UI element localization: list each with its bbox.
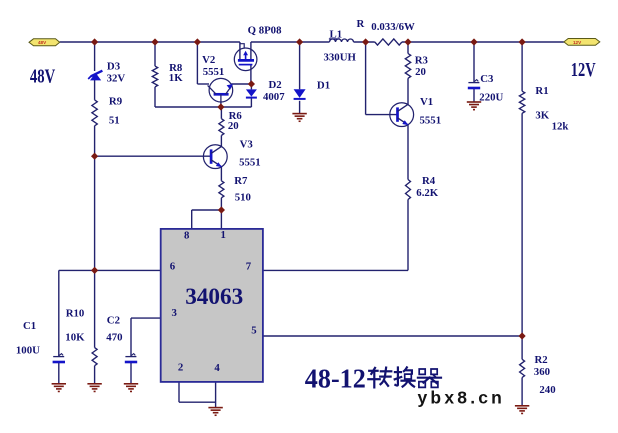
wire top rail segment L1 to R [354,41,375,43]
wire down to C2 plus plate [130,318,132,356]
svg-text:D3: D3 [107,61,121,73]
wire V2 emitter to node D [232,83,252,85]
node rail-V1 base branch [362,38,369,45]
wire node F left toward pin 8 [192,209,222,211]
ground under C3 [467,102,481,110]
wire R9 to node B and on down to node C [94,126,96,271]
svg-text:20: 20 [415,66,426,78]
svg-text:D1: D1 [317,79,330,91]
capacitor C1 [53,354,65,362]
svg-text:51: 51 [109,114,120,126]
node D MOSFET/V2 emitter/D2 [248,80,255,87]
zener diode D3 [88,71,102,81]
wire node D to D2 anode [250,84,252,89]
svg-text:R1: R1 [535,85,548,97]
resistor R6 [219,119,224,136]
svg-text:R4: R4 [422,175,436,187]
resistor R2 [520,359,525,377]
svg-text:10K: 10K [65,331,85,343]
wire lower horizontal run R8/V2 base/D2 [155,106,251,108]
wire IC pin 7 run [263,269,408,271]
ground under IC pins 2/4 [208,408,222,416]
resistor R7 [219,181,224,198]
wire R6 to V3 collector [220,135,222,147]
wire IC pin 2 down [178,382,180,402]
wire R3 to V1 collector [407,78,409,105]
node rail-R8 branch [151,38,158,45]
wire rail to R8 [154,42,156,66]
svg-text:20: 20 [228,120,239,132]
transistor V1 [390,103,414,127]
wire IC pin 4 down to ground [215,382,217,408]
node rail-D1 branch [296,38,303,45]
wire R2 to ground [521,378,523,406]
wire R10 to ground [94,366,96,384]
resistor R8 [152,66,157,87]
svg-text:510: 510 [235,192,251,204]
resistor R1 [519,91,524,113]
svg-text:C2: C2 [107,315,120,327]
svg-text:48V: 48V [38,40,47,45]
svg-text:Q 8P08: Q 8P08 [248,25,282,37]
svg-text:R3: R3 [415,54,429,66]
svg-text:1K: 1K [169,72,183,84]
wire rail to R1 [521,42,523,91]
transistor V3 [203,145,227,169]
wire IC pin 6 run to node C [95,269,161,271]
node rail-D3 branch [91,38,98,45]
svg-text:R: R [357,18,365,30]
svg-text:360: 360 [534,366,550,378]
node B V3 base tap [91,153,98,160]
title hanzi 转换器 [368,367,441,387]
svg-text:V3: V3 [240,139,254,151]
ground under C2 [124,384,138,392]
node rail-C3 branch [470,38,477,45]
transistor V2 (PNP drive) [208,78,233,102]
wire R1 down to node G [521,113,523,336]
svg-text:8: 8 [184,229,190,241]
wire IC pin 3 run [131,317,161,319]
svg-text:ybx8.cn: ybx8.cn [418,387,506,407]
svg-text:12V: 12V [571,60,596,81]
svg-text:C3: C3 [480,73,494,85]
wire rail to D1 anode [299,42,301,89]
resistor R sense 0.033/6W [375,39,402,45]
svg-text:220U: 220U [479,92,503,104]
node C pin6/C1/R10 [91,267,98,274]
wire R8 to lower horizontal [154,87,156,107]
resistor R9 [92,100,97,126]
wire C3 to ground [473,89,475,102]
svg-text:100U: 100U [16,344,40,356]
wire V2 base down to node E [220,102,222,108]
svg-text:0.033/6W: 0.033/6W [371,21,415,33]
resistor R10 [92,348,97,366]
wire IC pin 5 run to node G [263,335,522,337]
wire top rail segment R to 12V connector [402,41,564,43]
ground under D1 [292,114,306,122]
ground under C1 [52,384,66,392]
svg-text:V2: V2 [202,54,215,66]
wire pin 2 across to pin 4 [179,401,216,403]
svg-text:330UH: 330UH [324,51,357,63]
wire R4 down to pin7 level [407,200,409,271]
svg-text:48V: 48V [30,67,55,88]
wire D3 anode to R9 [94,80,96,100]
wire node G to R2 [521,336,523,359]
wire rail to R3 [407,42,409,54]
svg-text:4: 4 [214,362,220,374]
svg-text:R9: R9 [109,96,123,108]
node rail-V2 branch [194,38,201,45]
wire rail down left of V1 [365,42,367,115]
svg-text:470: 470 [106,331,122,343]
wire MOSFET bottom lead to node D [250,65,252,84]
svg-text:12k: 12k [552,121,569,133]
svg-text:5551: 5551 [203,66,225,78]
svg-text:5551: 5551 [239,157,261,169]
svg-text:C1: C1 [23,320,36,332]
mosfet Q 8P08 [234,48,257,71]
svg-text:1: 1 [221,229,226,241]
svg-text:6.2K: 6.2K [416,187,438,199]
capacitor C3 [468,80,480,88]
wire down to IC pin 8 [191,210,193,229]
op-amp U1 34063 body [161,229,263,382]
wire C2 to ground [130,363,132,384]
diode D2 [246,89,257,97]
wire 48V rail to D3 cathode [94,42,96,71]
wire to V1 base [366,114,397,116]
wire rail down to V2 collector [196,42,198,84]
svg-text:5551: 5551 [420,114,442,126]
wire V2 collector lead [197,83,209,85]
svg-text:32V: 32V [107,72,126,84]
diode D1 [294,89,306,99]
port 48V input connector [29,39,60,46]
ground under R2 [515,406,529,414]
wire R7 to node F [220,198,222,210]
resistor R3 [405,54,410,79]
resistor R4 [406,180,411,200]
inductor L1 [330,39,354,42]
svg-text:R10: R10 [66,308,85,320]
wire V3 emitter to R7 [220,167,222,181]
node rail-R1 branch [519,38,526,45]
wire top rail segment MOSFET to L1 [251,41,330,43]
svg-text:4007: 4007 [263,91,285,103]
wire down to C1 plus plate [58,270,60,356]
label L1 underline [329,38,340,40]
svg-text:7: 7 [246,260,252,272]
svg-text:12V: 12V [573,40,582,45]
wire D1 cathode to ground [299,101,301,114]
wire node B to V3 base [95,155,211,157]
svg-text:48-12: 48-12 [305,362,366,393]
svg-text:D2: D2 [269,79,282,91]
node F R7/pin1/pin8 [218,206,225,213]
capacitor C2 [125,354,137,362]
svg-text:6: 6 [170,260,176,272]
wire MOSFET right lead from rail [250,42,252,60]
wire node E to R6 [220,107,222,119]
port 12V output connector [564,39,600,46]
svg-text:2: 2 [178,361,183,373]
wire V1 emitter to R4 [407,125,409,180]
wire node C down to R10 [94,270,96,347]
wire MOSFET left lead from rail [239,42,241,60]
node G pin5/R1/R2 [519,332,526,339]
svg-text:3K: 3K [535,109,549,121]
node rail-R3 branch [404,38,411,45]
wire D2 cathode down to lower horizontal [250,98,252,107]
svg-text:240: 240 [539,384,555,396]
wire rail to C3 plus plate [473,42,475,82]
ground under R10 [87,384,101,392]
wire C1 to ground [58,363,60,384]
svg-text:R7: R7 [234,175,248,187]
wire top rail left segment (48V input bus) [60,41,240,43]
wire node F down to IC pin 1 [220,210,222,229]
svg-text:V1: V1 [420,96,433,108]
svg-text:R2: R2 [535,354,548,366]
svg-text:3: 3 [172,307,178,319]
svg-text:34063: 34063 [185,284,243,310]
svg-text:5: 5 [251,325,256,337]
wire MOSFET drain notch [240,44,244,49]
wire node C left to C1 [59,269,95,271]
node E V2 base/R6 [217,103,224,110]
